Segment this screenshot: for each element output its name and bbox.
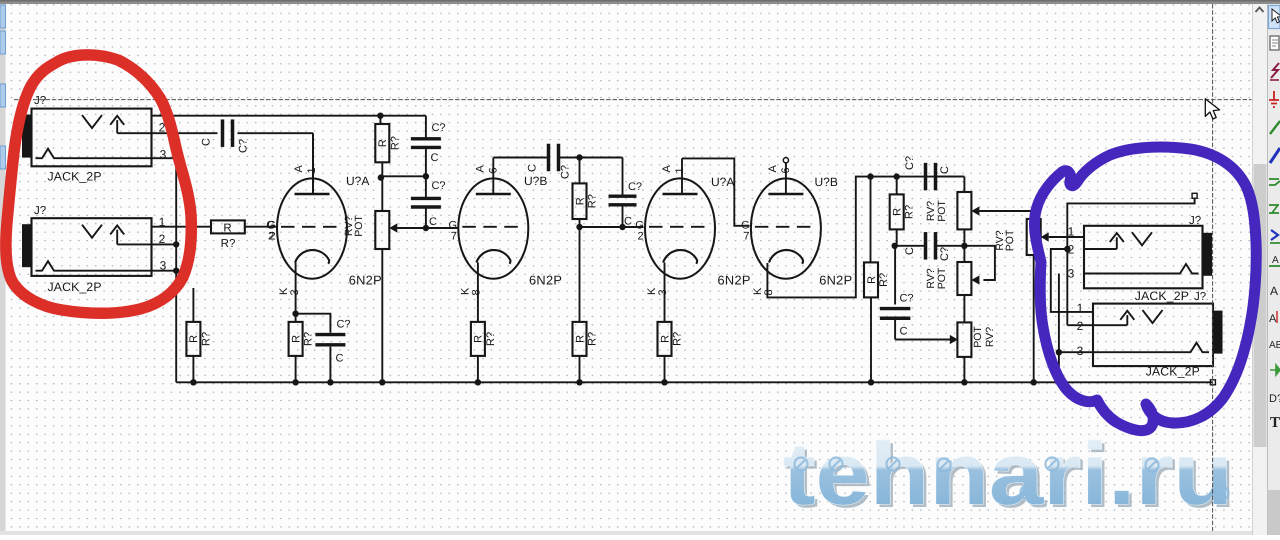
svg-text:R: R bbox=[659, 335, 671, 343]
svg-text:A: A bbox=[1270, 284, 1278, 298]
svg-text:R: R bbox=[377, 139, 389, 147]
svg-text:R: R bbox=[223, 223, 231, 235]
svg-text:C?: C? bbox=[628, 181, 642, 193]
svg-text:R: R bbox=[892, 208, 904, 216]
svg-text:6N2P: 6N2P bbox=[349, 273, 382, 288]
svg-text:POT: POT bbox=[1004, 229, 1016, 251]
svg-text:R?: R? bbox=[587, 194, 599, 208]
svg-text:C?: C? bbox=[904, 156, 916, 170]
svg-text:A: A bbox=[767, 165, 779, 173]
svg-text:R?: R? bbox=[485, 332, 497, 346]
svg-text:3: 3 bbox=[1077, 344, 1084, 358]
svg-text:R: R bbox=[473, 335, 485, 343]
svg-text:C?: C? bbox=[431, 122, 445, 134]
svg-text:JACK_2P: JACK_2P bbox=[1146, 365, 1200, 379]
svg-text:3: 3 bbox=[1068, 267, 1075, 281]
svg-text:JACK_2P: JACK_2P bbox=[1135, 289, 1189, 303]
svg-text:R?: R? bbox=[303, 332, 315, 346]
svg-text:R?: R? bbox=[878, 273, 890, 287]
svg-text:R?: R? bbox=[200, 332, 212, 346]
svg-text:3: 3 bbox=[657, 289, 669, 295]
svg-text:A: A bbox=[1272, 255, 1279, 266]
svg-text:C?: C? bbox=[336, 319, 350, 331]
svg-text:A: A bbox=[474, 165, 486, 173]
svg-text:1: 1 bbox=[306, 167, 318, 173]
svg-text:8: 8 bbox=[763, 289, 775, 295]
svg-text:U?B: U?B bbox=[524, 174, 547, 188]
svg-text:C?: C? bbox=[238, 139, 250, 153]
svg-text:J?: J? bbox=[1189, 215, 1201, 227]
svg-text:1: 1 bbox=[674, 167, 686, 173]
svg-text:6N2P: 6N2P bbox=[718, 273, 751, 288]
svg-text:J?: J? bbox=[34, 95, 46, 107]
svg-text:R?: R? bbox=[389, 136, 401, 150]
svg-text:A: A bbox=[661, 165, 673, 173]
svg-text:C?: C? bbox=[431, 180, 445, 192]
svg-text:C: C bbox=[431, 152, 439, 164]
svg-text:tehnari.ru: tehnari.ru bbox=[783, 424, 1233, 523]
svg-text:J?: J? bbox=[34, 205, 46, 217]
svg-text:J?: J? bbox=[1194, 291, 1206, 303]
svg-text:AB: AB bbox=[1269, 340, 1280, 351]
svg-text:3: 3 bbox=[160, 148, 167, 162]
svg-text:C: C bbox=[900, 326, 908, 338]
svg-text:R?: R? bbox=[587, 332, 599, 346]
svg-text:2: 2 bbox=[269, 231, 275, 243]
svg-text:R: R bbox=[574, 335, 586, 343]
svg-text:POT: POT bbox=[936, 267, 948, 289]
svg-text:2: 2 bbox=[637, 231, 643, 243]
svg-text:R: R bbox=[290, 335, 302, 343]
svg-text:1: 1 bbox=[1068, 225, 1075, 239]
svg-text:C: C bbox=[201, 138, 213, 146]
svg-text:C: C bbox=[624, 216, 632, 228]
svg-text:1: 1 bbox=[1077, 301, 1084, 315]
svg-text:RV?: RV? bbox=[984, 327, 996, 347]
svg-text:R: R bbox=[574, 197, 586, 205]
svg-text:D?: D? bbox=[1269, 393, 1280, 405]
svg-text:U?B: U?B bbox=[815, 175, 838, 189]
svg-text:A: A bbox=[293, 165, 305, 173]
svg-text:C?: C? bbox=[939, 247, 951, 261]
svg-text:6N2P: 6N2P bbox=[529, 273, 562, 288]
svg-text:C?: C? bbox=[560, 165, 572, 179]
svg-text:JACK_2P: JACK_2P bbox=[48, 170, 102, 184]
svg-text:6N2P: 6N2P bbox=[819, 273, 852, 288]
svg-text:A: A bbox=[1269, 313, 1277, 325]
svg-text:U?A: U?A bbox=[711, 175, 734, 189]
svg-text:POT: POT bbox=[936, 200, 948, 222]
svg-text:8: 8 bbox=[470, 289, 482, 295]
svg-text:POT: POT bbox=[972, 326, 984, 348]
svg-text:C: C bbox=[904, 247, 916, 255]
svg-text:C?: C? bbox=[899, 293, 913, 305]
svg-text:C: C bbox=[939, 166, 951, 174]
svg-text:R?: R? bbox=[672, 332, 684, 346]
svg-text:R?: R? bbox=[221, 238, 236, 250]
svg-text:U?A: U?A bbox=[346, 174, 369, 188]
svg-text:R?: R? bbox=[904, 205, 916, 219]
svg-text:7: 7 bbox=[451, 231, 457, 243]
svg-text:POT: POT bbox=[353, 215, 365, 237]
svg-text:JACK_2P: JACK_2P bbox=[48, 280, 102, 294]
svg-text:R: R bbox=[188, 335, 200, 343]
svg-text:C: C bbox=[527, 164, 539, 172]
svg-text:C: C bbox=[429, 216, 437, 228]
svg-text:C: C bbox=[336, 353, 344, 365]
svg-text:7: 7 bbox=[743, 231, 749, 243]
svg-text:T: T bbox=[1270, 415, 1280, 431]
svg-text:R: R bbox=[866, 276, 878, 284]
